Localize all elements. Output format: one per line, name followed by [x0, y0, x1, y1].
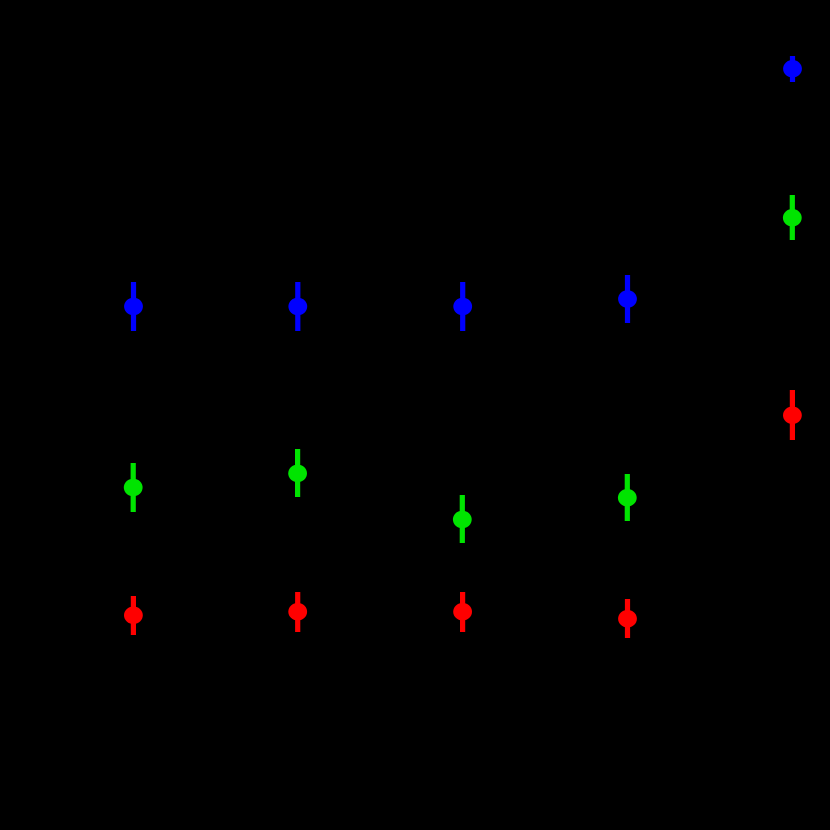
- green data point col2: [288, 449, 307, 497]
- red data point col4: [618, 599, 637, 638]
- red data point col3: [453, 592, 472, 632]
- blue data point col3: [453, 282, 472, 331]
- red data point col5: [783, 390, 802, 440]
- green data point col4: [618, 474, 637, 521]
- green data point col5: [783, 195, 802, 240]
- blue data point col4: [618, 275, 637, 323]
- blue data point col1: [124, 282, 143, 331]
- blue data point col2: [288, 282, 307, 331]
- red data point col2: [288, 592, 307, 632]
- green data point col1: [124, 463, 143, 512]
- red data point col1: [124, 596, 143, 635]
- green data point col3: [453, 495, 472, 543]
- blue data point col5: [783, 56, 802, 82]
